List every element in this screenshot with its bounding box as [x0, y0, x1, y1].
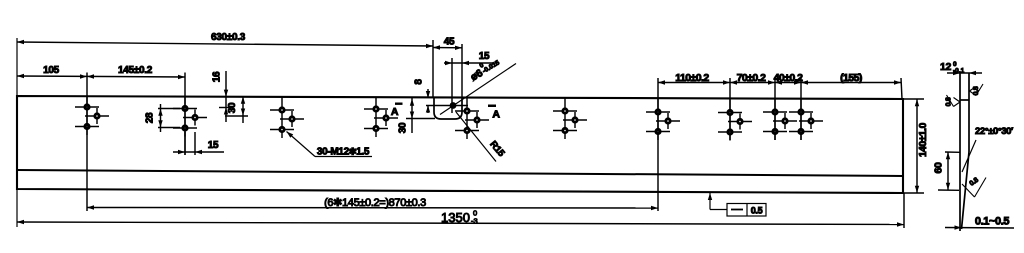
svg-text:30-M12✱1.5: 30-M12✱1.5	[317, 147, 370, 158]
svg-text:-0.1: -0.1	[953, 68, 965, 75]
svg-text:16: 16	[212, 71, 223, 82]
svg-text:28: 28	[145, 112, 156, 123]
svg-text:1350: 1350	[441, 210, 470, 225]
svg-text:70±0.2: 70±0.2	[737, 72, 766, 84]
svg-text:0.8: 0.8	[973, 86, 980, 95]
svg-text:8: 8	[414, 79, 425, 85]
svg-text:0.5: 0.5	[751, 206, 763, 216]
svg-text:12: 12	[940, 61, 952, 73]
svg-text:15: 15	[208, 140, 219, 151]
svg-text:140±1.0: 140±1.0	[918, 122, 929, 157]
svg-text:110±0.2: 110±0.2	[675, 72, 709, 84]
svg-text:15: 15	[479, 51, 490, 62]
svg-text:0.8: 0.8	[946, 97, 953, 106]
svg-text:145±0.2: 145±0.2	[118, 65, 153, 76]
svg-text:30: 30	[227, 102, 238, 113]
svg-text:A: A	[492, 109, 500, 121]
svg-text:40±0.2: 40±0.2	[774, 72, 803, 84]
svg-text:A: A	[391, 106, 399, 118]
svg-text:45: 45	[444, 37, 455, 48]
svg-text:(155): (155)	[840, 72, 862, 84]
svg-text:105: 105	[43, 65, 60, 76]
svg-text:30: 30	[398, 122, 409, 133]
svg-text:-3: -3	[471, 217, 478, 226]
svg-text:60: 60	[933, 162, 945, 174]
svg-text:(6✱145±0.2=)870±0.3: (6✱145±0.2=)870±0.3	[324, 197, 426, 209]
svg-text:630±0.3: 630±0.3	[211, 32, 246, 43]
svg-text:0.1~0.5: 0.1~0.5	[975, 216, 1009, 228]
svg-text:22°±0°30′: 22°±0°30′	[975, 126, 1014, 137]
